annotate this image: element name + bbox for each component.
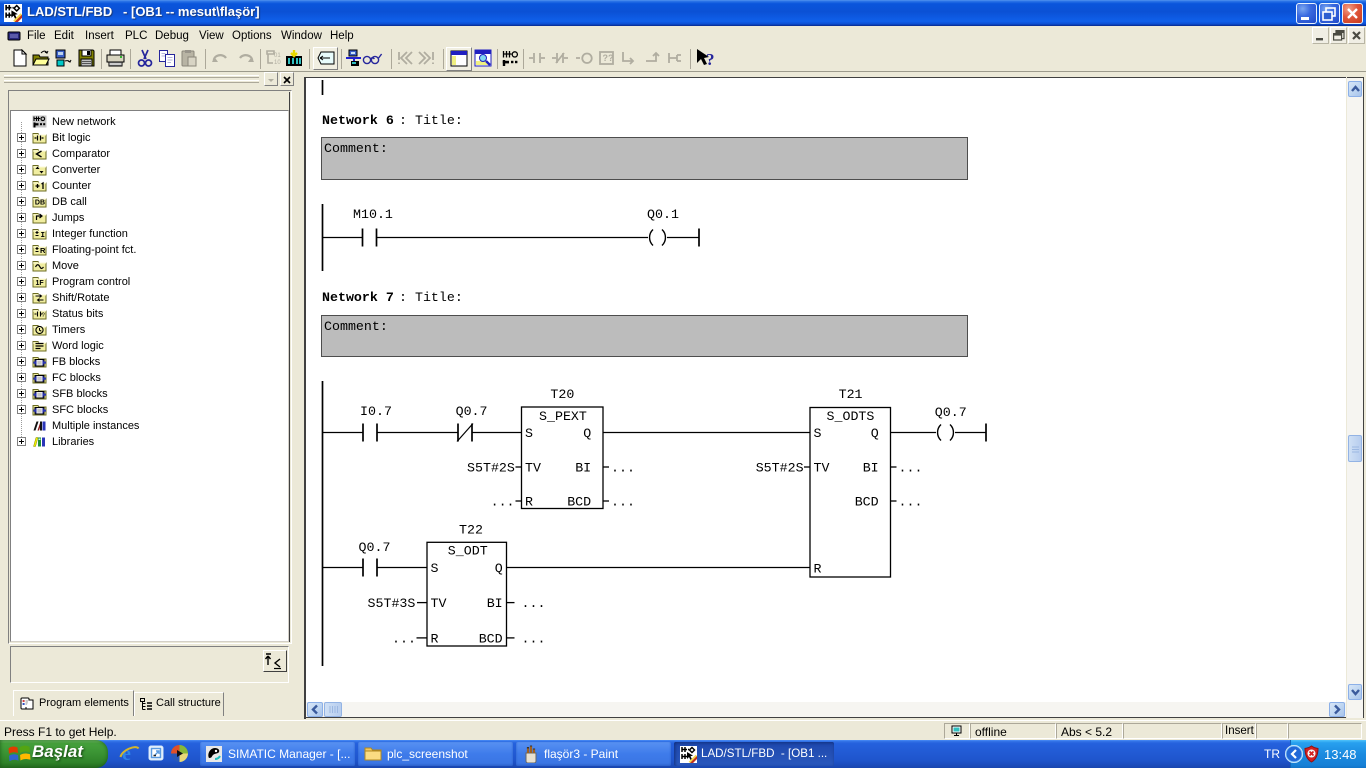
svg-text:1F: 1F	[36, 280, 45, 287]
svg-text:...: ...	[522, 631, 546, 646]
svg-text:S_ODT: S_ODT	[448, 544, 488, 559]
svg-text:Network 7: Network 7	[322, 290, 394, 305]
svg-text:R: R	[814, 562, 822, 577]
svg-text:S: S	[431, 561, 439, 576]
svg-text:TV: TV	[525, 461, 541, 476]
svg-text:BI: BI	[575, 461, 591, 476]
svg-text:01: 01	[274, 53, 281, 59]
svg-text:: Title:: : Title:	[399, 113, 463, 128]
svg-text:S: S	[525, 426, 533, 441]
svg-text:I0.7: I0.7	[360, 404, 392, 419]
svg-text:Q: Q	[495, 561, 503, 576]
svg-text:Q0.7: Q0.7	[359, 540, 391, 555]
svg-text:T22: T22	[459, 523, 483, 538]
svg-text:R: R	[431, 631, 439, 646]
svg-text:BCD: BCD	[855, 495, 879, 510]
svg-text:??: ??	[603, 53, 614, 63]
svg-text:...: ...	[491, 495, 515, 510]
svg-text:?: ?	[706, 50, 715, 69]
svg-text:10: 10	[274, 60, 281, 66]
svg-text:: Title:: : Title:	[399, 290, 463, 305]
svg-text:S5T#3S: S5T#3S	[368, 596, 416, 611]
svg-text:Q0.7: Q0.7	[456, 404, 488, 419]
svg-text:S_PEXT: S_PEXT	[539, 409, 587, 424]
svg-text:Q: Q	[583, 426, 591, 441]
svg-text:S5T#2S: S5T#2S	[756, 461, 804, 476]
svg-text:TV: TV	[814, 461, 830, 476]
svg-text:BI: BI	[487, 596, 503, 611]
svg-text:TV: TV	[431, 596, 447, 611]
svg-text:Q0.7: Q0.7	[935, 405, 967, 420]
svg-text:R: R	[525, 495, 533, 510]
svg-text:BCD: BCD	[567, 495, 591, 510]
svg-text:S: S	[814, 426, 822, 441]
svg-text:Comment:: Comment:	[324, 141, 388, 156]
svg-text:...: ...	[522, 596, 546, 611]
svg-text:S5T#2S: S5T#2S	[467, 461, 515, 476]
svg-text:...: ...	[611, 495, 635, 510]
svg-text:T20: T20	[550, 387, 574, 402]
svg-text:BCD: BCD	[479, 631, 503, 646]
svg-text:...: ...	[899, 461, 923, 476]
svg-text:M10.1: M10.1	[353, 207, 393, 222]
svg-text:Comment:: Comment:	[324, 319, 388, 334]
svg-text:Q: Q	[871, 426, 879, 441]
svg-text:DB: DB	[35, 200, 45, 207]
svg-text:BI: BI	[863, 461, 879, 476]
svg-text:T21: T21	[839, 387, 863, 402]
svg-text:S_ODTS: S_ODTS	[827, 409, 875, 424]
svg-text:...: ...	[899, 495, 923, 510]
svg-text:Q0.1: Q0.1	[647, 207, 679, 222]
svg-text:R: R	[40, 246, 46, 255]
svg-text:...: ...	[392, 631, 416, 646]
svg-text:Network 6: Network 6	[322, 113, 394, 128]
svg-text:...: ...	[611, 461, 635, 476]
svg-text:I: I	[41, 232, 46, 240]
